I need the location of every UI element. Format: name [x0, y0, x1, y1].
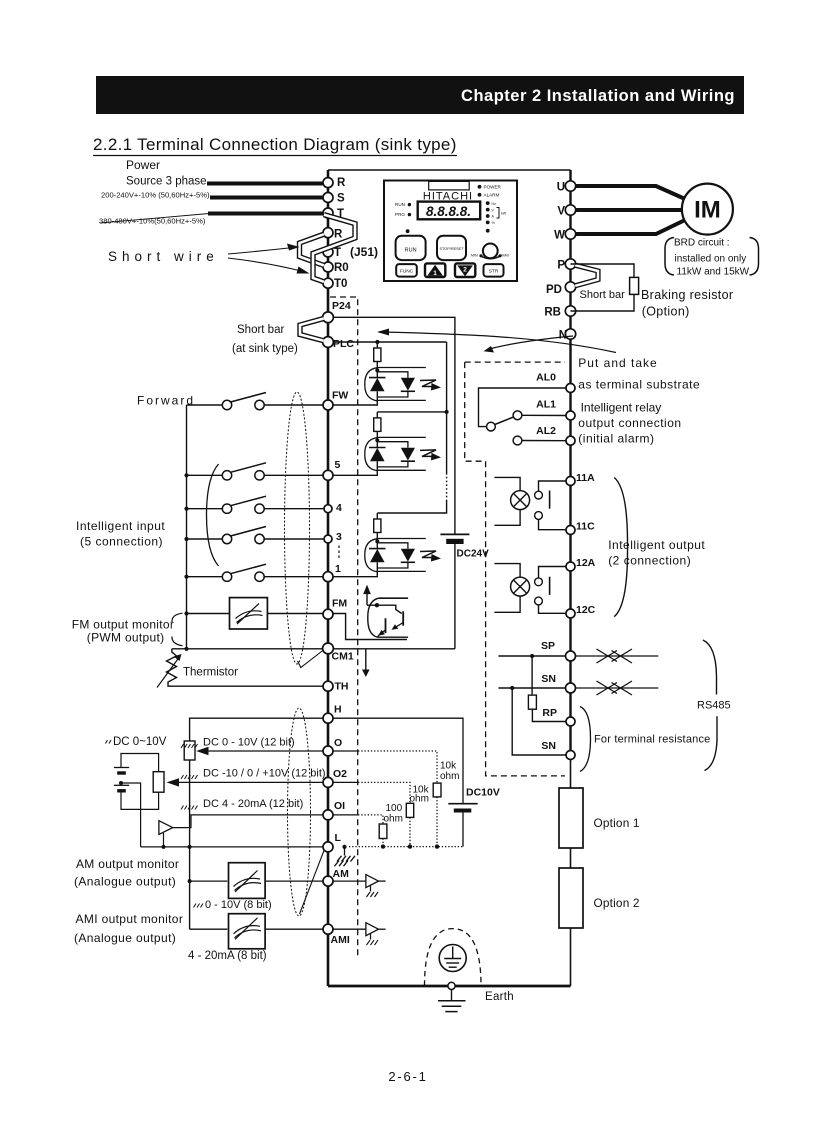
svg-text:1: 1 [433, 270, 437, 277]
svg-text:ohm: ohm [384, 814, 403, 825]
svg-text:12A: 12A [576, 557, 596, 569]
svg-text:SN: SN [541, 673, 556, 685]
svg-text:AM: AM [333, 868, 350, 880]
svg-text:T: T [334, 247, 341, 259]
svg-text:DC 0 - 10V (12 bit): DC 0 - 10V (12 bit) [203, 737, 295, 749]
svg-text:0 - 10V (8 bit): 0 - 10V (8 bit) [205, 899, 272, 911]
svg-text:FUNC: FUNC [400, 269, 414, 275]
svg-text:2: 2 [463, 267, 467, 274]
svg-text:output connection: output connection [578, 416, 681, 430]
svg-text:RP: RP [542, 707, 557, 719]
svg-text:Intelligent relay: Intelligent relay [581, 401, 662, 415]
svg-text:P: P [557, 260, 565, 272]
svg-text:RUN: RUN [395, 202, 405, 207]
svg-text:Braking resistor: Braking resistor [641, 288, 733, 302]
svg-text:Short bar: Short bar [580, 289, 626, 301]
svg-text:Forward: Forward [137, 394, 195, 408]
svg-text:TH: TH [335, 681, 349, 693]
svg-text:SP: SP [541, 640, 555, 652]
svg-text:OI: OI [334, 800, 345, 812]
svg-text:RB: RB [544, 307, 561, 319]
svg-text:O2: O2 [333, 768, 347, 780]
svg-text:Intelligent output: Intelligent output [608, 538, 705, 552]
svg-text:DC 0~10V: DC 0~10V [113, 736, 167, 748]
svg-text:Option 1: Option 1 [594, 816, 640, 830]
svg-text:POWER: POWER [484, 185, 502, 190]
svg-text:Intelligent input: Intelligent input [76, 519, 165, 533]
svg-text:380-480V+-10%(50,60Hz+-5%): 380-480V+-10%(50,60Hz+-5%) [99, 217, 206, 226]
svg-text:FW: FW [332, 390, 348, 402]
svg-text:O: O [334, 737, 342, 749]
svg-text:Put and take: Put and take [578, 356, 657, 370]
svg-text:Source 3 phase: Source 3 phase [126, 176, 207, 188]
svg-text:Earth: Earth [485, 991, 514, 1003]
svg-text:R: R [337, 177, 346, 189]
svg-text:Hz: Hz [492, 202, 497, 206]
svg-text:3: 3 [336, 531, 342, 543]
svg-text:AMI: AMI [331, 934, 350, 946]
svg-text:AL2: AL2 [536, 425, 556, 437]
svg-text:R: R [334, 229, 343, 241]
svg-text:MIN: MIN [471, 254, 478, 258]
svg-text:FM output monitor: FM output monitor [72, 618, 174, 632]
svg-text:PLC: PLC [333, 338, 354, 350]
svg-text:H: H [334, 704, 342, 716]
svg-text:11kW and 15kW: 11kW and 15kW [677, 267, 750, 278]
svg-text:L: L [335, 832, 342, 844]
svg-text:2-6-1: 2-6-1 [388, 1069, 427, 1084]
svg-text:4: 4 [336, 502, 342, 514]
svg-text:200-240V+-10% (50,60Hz+-5%): 200-240V+-10% (50,60Hz+-5%) [101, 191, 210, 200]
svg-text:BRD circuit :: BRD circuit : [674, 238, 730, 249]
svg-text:Power: Power [126, 158, 160, 172]
svg-text:S: S [337, 193, 345, 205]
svg-text:Option 2: Option 2 [594, 896, 640, 910]
svg-text:IM: IM [694, 197, 721, 224]
svg-text:(Option): (Option) [642, 305, 690, 319]
svg-text:MAX: MAX [502, 254, 510, 258]
svg-text:Short bar: Short bar [237, 324, 284, 336]
svg-text:DC10V: DC10V [466, 787, 500, 799]
svg-text:T0: T0 [334, 278, 347, 290]
svg-text:Thermistor: Thermistor [183, 667, 238, 679]
svg-text:FM: FM [332, 598, 347, 610]
svg-text:RS485: RS485 [697, 700, 731, 712]
svg-text:5: 5 [335, 459, 341, 471]
svg-text:installed on only: installed on only [675, 254, 747, 265]
svg-text:11A: 11A [576, 472, 595, 484]
svg-text:AM output monitor: AM output monitor [76, 857, 179, 871]
svg-text:For terminal resistance: For terminal resistance [594, 734, 710, 746]
svg-text:as terminal substrate: as terminal substrate [578, 378, 700, 392]
svg-text:(5 connection): (5 connection) [80, 535, 163, 549]
svg-text:(J51): (J51) [350, 245, 378, 259]
svg-text:V: V [557, 206, 565, 218]
svg-text:1: 1 [335, 563, 341, 575]
svg-text:DC -10 / 0 / +10V (12 bit): DC -10 / 0 / +10V (12 bit) [203, 768, 326, 780]
svg-text:SN: SN [541, 740, 556, 752]
svg-text:ALARM: ALARM [484, 193, 500, 198]
svg-text:STR: STR [489, 269, 499, 275]
svg-text:100: 100 [386, 803, 403, 814]
svg-text:U: U [557, 182, 565, 194]
svg-text:(initial alarm): (initial alarm) [578, 432, 654, 446]
svg-text:kW: kW [501, 212, 507, 216]
svg-text:(Analogue output): (Analogue output) [74, 875, 176, 889]
svg-text:(PWM output): (PWM output) [87, 631, 165, 645]
svg-text:P24: P24 [332, 300, 351, 312]
svg-text:12C: 12C [576, 604, 596, 616]
svg-text:DC 4 - 20mA (12 bit): DC 4 - 20mA (12 bit) [203, 798, 303, 810]
svg-text:(Analogue output): (Analogue output) [74, 931, 176, 945]
svg-text:Short wire: Short wire [108, 249, 219, 264]
svg-text:N: N [559, 330, 567, 342]
svg-text:R0: R0 [334, 262, 349, 274]
svg-text:11C: 11C [576, 521, 595, 533]
svg-text:PRG: PRG [395, 212, 405, 217]
svg-text:Chapter 2 Installation and Wir: Chapter 2 Installation and Wiring [461, 87, 735, 105]
svg-text:10k: 10k [440, 761, 457, 772]
svg-text:PD: PD [546, 284, 562, 296]
svg-text:ohm: ohm [410, 794, 429, 805]
svg-text:DC24V: DC24V [457, 549, 490, 560]
svg-text:AL1: AL1 [536, 399, 556, 411]
svg-text:RUN: RUN [405, 248, 417, 254]
svg-text:(at sink type): (at sink type) [232, 343, 298, 355]
svg-text:(2 connection): (2 connection) [608, 554, 691, 568]
svg-text:AMI output monitor: AMI output monitor [76, 912, 184, 926]
svg-text:AL0: AL0 [536, 372, 556, 384]
svg-text:8.8.8.8.: 8.8.8.8. [426, 204, 471, 219]
svg-text:2.2.1 Terminal Connection Diag: 2.2.1 Terminal Connection Diagram (sink … [93, 135, 457, 154]
svg-text:CM1: CM1 [332, 651, 354, 663]
svg-text:4 - 20mA (8 bit): 4 - 20mA (8 bit) [188, 950, 267, 962]
svg-text:STOP/RESET: STOP/RESET [440, 247, 465, 251]
svg-text:ohm: ohm [440, 771, 459, 782]
svg-text:W: W [554, 230, 565, 242]
